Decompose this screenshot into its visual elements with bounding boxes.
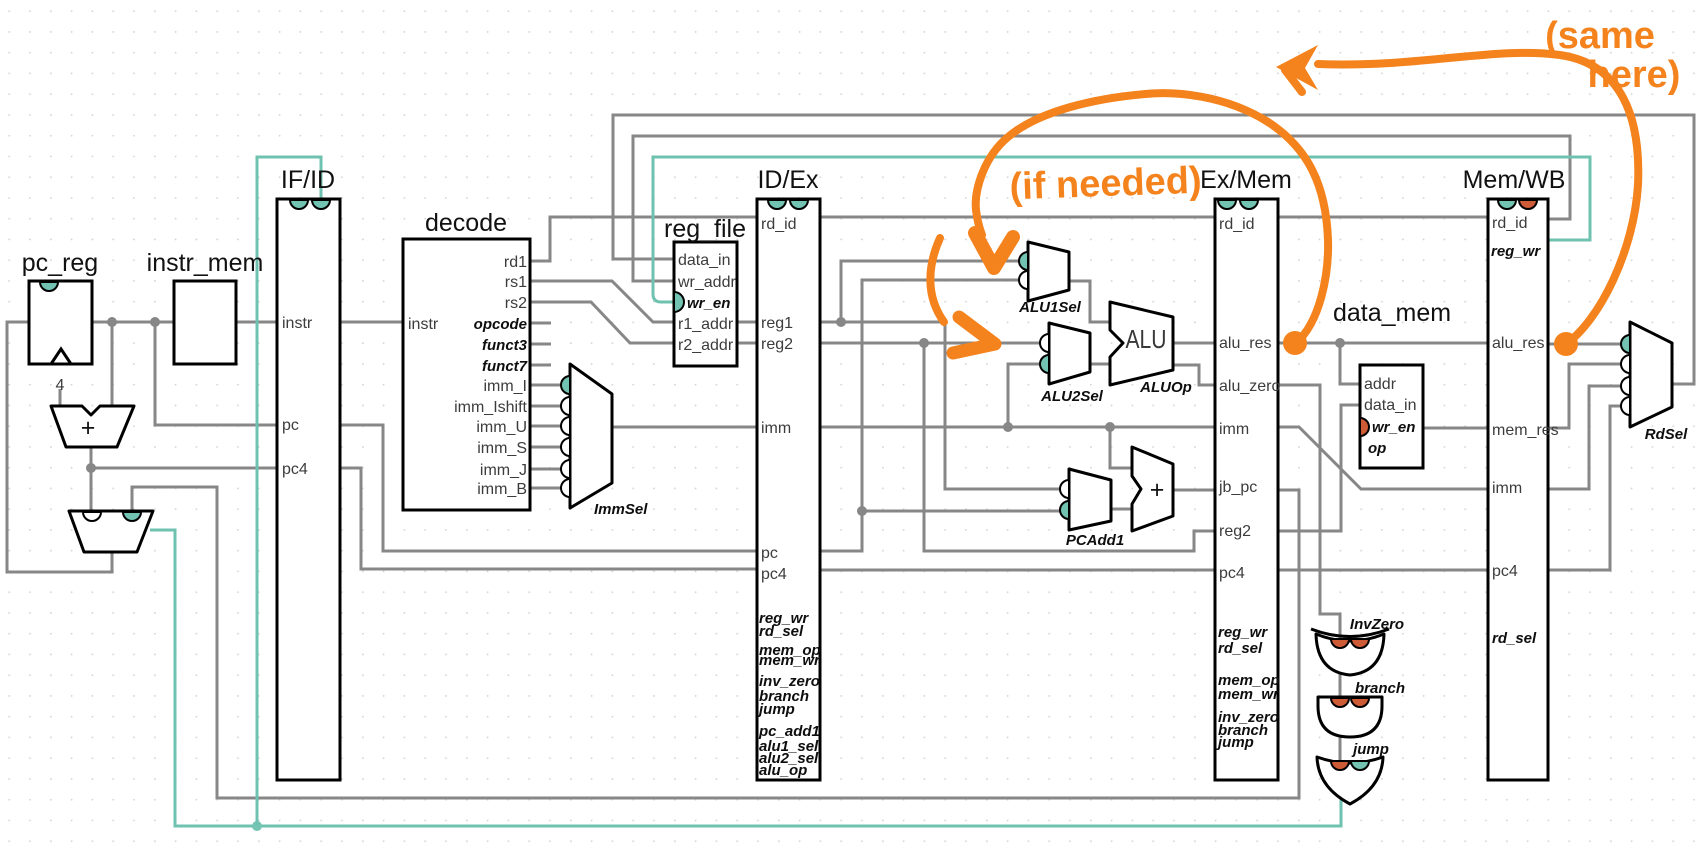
wire decode imm_S to ImmSel (530, 446, 562, 449)
wire ID/Ex imm to Ex/Mem imm (820, 426, 1215, 429)
node imm junction A (1003, 422, 1013, 432)
wire Ex/Mem alu_res to Mem/WB alu_res (1279, 342, 1488, 345)
svg-text:addr: addr (1364, 376, 1397, 393)
svg-text:funct3: funct3 (482, 337, 528, 354)
wire ID/Ex reg2 to ALU2Sel upper input (820, 342, 1041, 345)
svg-text:branch: branch (1355, 680, 1405, 697)
annotation orange arrowhead at reg2 line (953, 317, 995, 353)
annotation orange blob at Ex/Mem alu_res (1283, 331, 1307, 355)
wire PCAdd1 output to jb adder (1111, 508, 1132, 511)
node imm junction B (1105, 422, 1115, 432)
wire decode imm_U to ImmSel (530, 425, 562, 428)
svg-text:reg1: reg1 (761, 315, 793, 332)
svg-text:jump: jump (1351, 741, 1389, 758)
annotation orange curved arrow from Mem/WB alu_res to top (1318, 53, 1638, 344)
wire decode imm_J to ImmSel (530, 468, 562, 471)
wire ID/Ex rd_id to Ex/Mem rd_id (820, 216, 1215, 219)
svg-text:rd_id: rd_id (1492, 215, 1528, 232)
wire reg_file reg2 to ID/Ex reg2 (737, 342, 757, 345)
wire Mem/WB reg_wr to reg_file wr_en (teal) (653, 157, 1590, 302)
wire pc to IF/ID pc port (155, 322, 276, 425)
pipeline register ID/Ex (757, 166, 821, 780)
annotation orange arrow to ALU2Sel input (930, 238, 944, 322)
wire ALU result to Ex/Mem alu_res (1174, 342, 1215, 345)
gate branch (and) (1318, 680, 1405, 737)
annotation orange arrowhead pointing left (1276, 45, 1318, 90)
node reg1 junction (836, 317, 846, 327)
wire IF/ID pc to ID/Ex pc (341, 425, 757, 551)
svg-text:imm_Ishift: imm_Ishift (454, 399, 527, 416)
wire IF/ID instr to decode (341, 321, 403, 324)
node pc bus junction B (150, 317, 160, 327)
svg-text:imm: imm (1492, 480, 1522, 497)
svg-text:reg_wr: reg_wr (1491, 243, 1541, 260)
svg-text:pc4: pc4 (282, 461, 308, 478)
svg-text:IF/ID: IF/ID (281, 166, 335, 194)
svg-text:r2_addr: r2_addr (678, 337, 734, 354)
mux ImmSel (561, 364, 648, 518)
svg-text:r1_addr: r1_addr (678, 316, 734, 333)
mux ALU1Sel (1018, 242, 1082, 316)
gate jump (or) (1317, 741, 1389, 804)
wire decode rs1 to reg_file r1_addr (530, 281, 674, 322)
register pc_reg (22, 249, 98, 364)
svg-text:jump: jump (757, 701, 795, 718)
wire reg2 branch to Ex/Mem reg2 (924, 343, 1215, 551)
wire ID/Ex pc to ALU1Sel lower input (820, 280, 1020, 551)
svg-text:imm_U: imm_U (476, 419, 527, 436)
wire Ex/Mem rd_id to Mem/WB rd_id (1279, 216, 1488, 219)
wire decode rs2 to reg_file r2_addr (530, 302, 674, 343)
svg-text:instr: instr (282, 315, 313, 332)
annotation orange arrowhead at ALU1Sel input (975, 233, 1013, 268)
wire ALU1Sel output to ALU (1069, 281, 1110, 322)
wire Ex/Mem imm to Mem/WB imm (diagonal under data_mem) (1279, 427, 1488, 489)
node pc branch junction (857, 506, 867, 516)
wire data_mem output to Mem/WB mem_res (1423, 427, 1488, 430)
svg-text:+: + (1150, 476, 1165, 504)
svg-text:alu_res: alu_res (1492, 335, 1544, 352)
svg-text:instr: instr (408, 316, 439, 333)
mux ALU2Sel (1040, 323, 1104, 405)
svg-text:PCAdd1: PCAdd1 (1066, 532, 1124, 549)
svg-text:ALU1Sel: ALU1Sel (1018, 299, 1082, 316)
svg-text:wr_addr: wr_addr (677, 274, 736, 291)
wire Mem/WB alu_res to RdSel input 1 (1548, 343, 1622, 346)
wire ID/Ex pc4 to Ex/Mem pc4 (820, 569, 1215, 572)
svg-text:pc: pc (282, 417, 299, 434)
wire ALU zero to Ex/Mem alu_zero (1174, 365, 1215, 385)
adder pc+4 (51, 406, 134, 447)
svg-text:(if needed): (if needed) (1009, 160, 1202, 209)
wire reg_file reg1 to ID/Ex reg1 (737, 321, 757, 324)
wire reg1 to PCAdd1 upper input (820, 322, 1061, 489)
wire pc_reg output bus to instr_mem (92, 321, 174, 324)
svg-text:ALUOp: ALUOp (1139, 379, 1192, 396)
mux RdSel (1621, 322, 1688, 443)
wire IF/ID pc4 to ID/Ex pc4 (341, 468, 757, 569)
wire decode rd1 to ID/Ex rd_id (530, 217, 757, 261)
svg-text:pc4: pc4 (1219, 565, 1245, 582)
wire jb_pc feedback from Ex/Mem to pc-select mux (132, 487, 1299, 798)
svg-text:ALU: ALU (1126, 324, 1167, 354)
node reg2 junction (919, 338, 929, 348)
wire instr_mem to IF/ID instr (236, 321, 276, 324)
wire Ex/Mem pc4 to Mem/WB pc4 (1279, 569, 1488, 572)
svg-text:alu_res: alu_res (1219, 335, 1271, 352)
wire decode imm_I to ImmSel (530, 384, 562, 387)
svg-text:reg_file: reg_file (664, 215, 746, 243)
wire ImmSel output to ID/Ex imm (611, 426, 757, 429)
pipeline register IF/ID (277, 166, 340, 780)
node alu_res junction (1335, 338, 1345, 348)
svg-text:instr_mem: instr_mem (147, 249, 264, 277)
wire decode imm_Ishift to ImmSel (530, 405, 562, 408)
svg-text:funct7: funct7 (482, 358, 528, 375)
svg-text:ALU2Sel: ALU2Sel (1040, 388, 1104, 405)
decoder decode (403, 209, 530, 510)
svg-text:rd_id: rd_id (761, 216, 797, 233)
svg-text:mem_wr: mem_wr (759, 652, 821, 669)
wire branch gate output to jump gate (1339, 731, 1342, 765)
svg-text:decode: decode (425, 209, 507, 237)
node teal bus junction (252, 821, 262, 831)
mux PCAdd1 (1060, 469, 1124, 549)
svg-text:ID/Ex: ID/Ex (757, 166, 819, 194)
node pc bus junction A (107, 317, 117, 327)
wire imm branch to jb adder input (1110, 427, 1132, 468)
svg-text:pc4: pc4 (761, 566, 787, 583)
alu ALU (1110, 302, 1192, 396)
svg-text:imm_J: imm_J (480, 462, 527, 479)
svg-text:imm_B: imm_B (477, 481, 527, 498)
memory data_mem (1333, 299, 1451, 468)
wire jump feedback branch to IF/ID clock (teal) (257, 157, 321, 826)
svg-text:reg_wr: reg_wr (1218, 624, 1268, 641)
svg-text:4: 4 (56, 377, 65, 394)
pipeline register Ex/Mem (1200, 166, 1292, 780)
annotation orange blob at Mem/WB alu_res (1554, 332, 1578, 356)
svg-text:rs1: rs1 (505, 274, 527, 291)
svg-text:pc_reg: pc_reg (22, 249, 98, 277)
wire decode opcode stub (530, 322, 551, 325)
svg-text:pc4: pc4 (1492, 563, 1518, 580)
svg-text:alu_zero: alu_zero (1219, 378, 1280, 395)
svg-text:imm_S: imm_S (477, 440, 527, 457)
svg-text:imm: imm (761, 420, 791, 437)
svg-text:alu_op: alu_op (759, 762, 807, 779)
wire Mem/WB mem_res to RdSel input 2 (1548, 364, 1622, 428)
wire pc4 to IF/ID pc4 port (91, 467, 276, 470)
svg-text:jump: jump (1216, 734, 1254, 751)
wire Mem/WB pc4 to RdSel input 4 (1548, 406, 1622, 570)
wire alu_res branch to data_mem addr (1340, 343, 1360, 384)
svg-text:wr_en: wr_en (1372, 419, 1415, 436)
svg-text:mem_res: mem_res (1492, 422, 1559, 439)
adder jb adder (1132, 447, 1173, 531)
svg-text:imm: imm (1219, 421, 1249, 438)
wire decode funct7 stub (530, 364, 551, 367)
svg-text:jb_pc: jb_pc (1218, 479, 1257, 496)
wire adder output to pc-select mux (90, 447, 93, 512)
svg-text:RdSel: RdSel (1645, 426, 1688, 443)
svg-text:rd_id: rd_id (1219, 216, 1255, 233)
wire ALU2Sel output to ALU (1090, 363, 1110, 366)
svg-text:+: + (81, 414, 96, 442)
annotation orange arrowhead spur (1285, 70, 1302, 92)
svg-text:Ex/Mem: Ex/Mem (1200, 166, 1292, 194)
wire jb adder output to Ex/Mem jb_pc (1173, 489, 1215, 492)
svg-text:data_mem: data_mem (1333, 299, 1451, 327)
svg-text:data_in: data_in (1364, 397, 1417, 414)
svg-text:data_in: data_in (678, 252, 731, 269)
svg-text:rd_sel: rd_sel (1492, 630, 1537, 647)
wire pc to adder right input (111, 322, 114, 406)
svg-text:wr_en: wr_en (687, 295, 730, 312)
wire InvZero output to branch gate (1339, 666, 1342, 702)
wire Ex/Mem alu_zero to InvZero gate (1279, 385, 1340, 641)
svg-text:op: op (1368, 440, 1386, 457)
svg-text:rs2: rs2 (505, 295, 527, 312)
node pc4 junction (86, 463, 96, 473)
svg-text:InvZero: InvZero (1350, 616, 1404, 633)
memory instr_mem (147, 249, 264, 364)
wire jump gate output feedback (teal) (150, 530, 1341, 826)
register file reg_file (664, 215, 746, 366)
pipeline register Mem/WB (1463, 166, 1566, 780)
svg-text:pc: pc (761, 545, 778, 562)
wire Ex/Mem reg2 to data_mem data_in (1279, 405, 1360, 531)
svg-text:(same: (same (1545, 15, 1655, 57)
wire decode imm_B to ImmSel (530, 487, 562, 490)
wire decode funct3 stub (530, 343, 551, 346)
svg-text:rd_sel: rd_sel (759, 623, 804, 640)
wire pc branch to PCAdd1 lower input (862, 510, 1061, 513)
svg-text:Mem/WB: Mem/WB (1463, 166, 1566, 194)
wire imm branch to ALU2Sel lower input (1008, 364, 1041, 427)
wire writeback data from RdSel to reg_file data_in (613, 115, 1694, 384)
annotation orange loop around ALU stage (976, 93, 1328, 343)
svg-text:mem_wr: mem_wr (1218, 686, 1280, 703)
gate InvZero (xor) (1311, 616, 1404, 675)
wire Mem/WB imm to RdSel input 3 (1548, 386, 1622, 489)
svg-text:here): here) (1588, 54, 1681, 96)
svg-text:opcode: opcode (474, 316, 527, 333)
mux PCSel (next pc select) (69, 511, 153, 552)
wire constant 4 stub into adder (59, 389, 62, 406)
svg-text:rd1: rd1 (504, 254, 527, 271)
svg-text:imm_I: imm_I (483, 378, 527, 395)
svg-text:ImmSel: ImmSel (594, 501, 648, 518)
wire pc-select output to pc_reg input (7, 322, 112, 572)
svg-text:reg2: reg2 (761, 336, 793, 353)
wire Mem/WB rd_id to reg_file wr_addr (633, 136, 1570, 281)
svg-text:rd_sel: rd_sel (1218, 640, 1263, 657)
svg-text:reg2: reg2 (1219, 523, 1251, 540)
wire reg1 branch to ALU1Sel upper input (841, 261, 1020, 322)
